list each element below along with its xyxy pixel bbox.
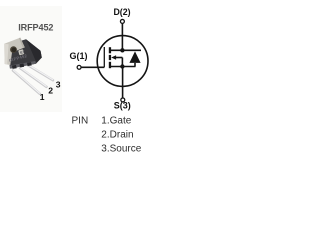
junction dot source: [120, 64, 124, 68]
bulk arrow (N-channel): [111, 55, 116, 60]
svg-text:3: 3: [56, 79, 61, 89]
svg-text:2: 2: [48, 85, 53, 95]
package metal tab: [4, 38, 25, 65]
tab mounting hole: [10, 46, 17, 53]
svg-text:1: 1: [40, 92, 45, 102]
diode anode stub: [134, 63, 136, 67]
source internal line: [109, 66, 136, 68]
transistor package photo (TO-218): [4, 38, 53, 94]
channel segment (drain): [109, 47, 111, 53]
source wire: [122, 67, 124, 98]
body diode D1: [129, 51, 140, 63]
gate bar: [103, 47, 105, 67]
body right side shading: [26, 39, 42, 63]
channel segment (bulk): [109, 55, 111, 60]
svg-text:1.Gate: 1.Gate: [101, 115, 131, 126]
MOSFET symbol Q1: [81, 24, 148, 98]
bulk wire: [116, 57, 123, 59]
body bottom leg shoulders: [12, 65, 17, 69]
drain internal line: [109, 49, 141, 51]
svg-text:2.Drain: 2.Drain: [101, 129, 133, 140]
terminal D: [120, 19, 124, 23]
svg-text:D(2): D(2): [113, 7, 130, 17]
svg-text:G(1): G(1): [70, 51, 88, 61]
svg-text:3.Source: 3.Source: [101, 143, 141, 154]
channel segment (source): [109, 62, 111, 68]
body bottom edge step: [10, 61, 36, 69]
bulk-source vertical wire: [121, 58, 123, 67]
terminal G: [77, 65, 81, 69]
svg-text:PIN: PIN: [72, 115, 89, 126]
junction dot drain: [120, 48, 124, 52]
symbol circle: [97, 36, 148, 87]
svg-text:S(3): S(3): [114, 101, 131, 111]
leg 2: [20, 68, 46, 87]
svg-text:IRFP452: IRFP452: [18, 23, 53, 33]
terminal S: [121, 98, 125, 102]
gate wire: [81, 66, 104, 68]
ST logo: [18, 49, 24, 55]
leg 3: [27, 65, 53, 81]
leg 1: [13, 71, 40, 94]
drain wire: [121, 24, 123, 51]
package plastic body: [8, 39, 42, 68]
